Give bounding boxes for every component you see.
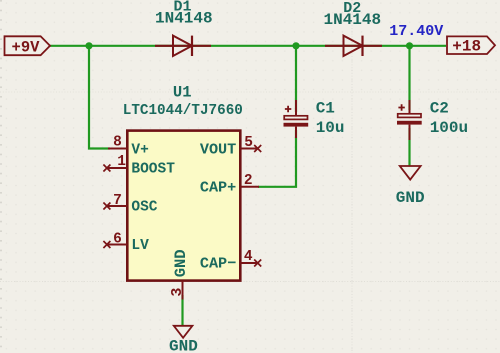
capacitor C2: [397, 100, 422, 140]
U1 pin 3 GND (bottom): [169, 249, 190, 299]
ground symbol under C2: [396, 166, 425, 207]
svg-text:BOOST: BOOST: [131, 162, 175, 178]
svg-text:OSC: OSC: [131, 200, 157, 216]
svg-text:2: 2: [244, 173, 253, 189]
svg-text:1: 1: [117, 154, 126, 170]
U1 pin 8 V+: [108, 135, 149, 159]
svg-text:GND: GND: [396, 189, 425, 207]
U1 pin 4 CAP- (no-connect): [200, 249, 261, 273]
svg-text:100u: 100u: [430, 119, 468, 137]
svg-text:3: 3: [169, 288, 186, 297]
svg-text:5: 5: [244, 135, 253, 151]
svg-text:4: 4: [244, 249, 253, 265]
wire C1 top drop: [295, 46, 297, 112]
svg-text:LTC1044/TJ7660: LTC1044/TJ7660: [123, 103, 243, 119]
svg-text:CAP−: CAP−: [200, 255, 236, 273]
U1 pin 7 OSC (no-connect): [103, 193, 157, 216]
svg-text:GND: GND: [172, 249, 190, 277]
svg-text:VOUT: VOUT: [200, 140, 236, 158]
U1 pin 5 VOUT (no-connect): [200, 135, 261, 158]
svg-text:+18: +18: [452, 38, 481, 56]
svg-text:17.40V: 17.40V: [389, 23, 443, 40]
svg-text:+9V: +9V: [12, 38, 41, 56]
wire junction 89 down to pin 8: [89, 46, 110, 149]
wire C2 bottom to GND: [408, 128, 410, 166]
op-amp / IC U1 body: [127, 131, 240, 281]
svg-text:LV: LV: [131, 238, 149, 254]
node junction at +9V branch: [85, 42, 92, 49]
svg-text:C2: C2: [430, 100, 449, 118]
svg-text:6: 6: [113, 232, 122, 248]
diode D1: [155, 36, 211, 56]
U1 pin 2 CAP+: [200, 173, 259, 197]
svg-text:U1: U1: [173, 84, 192, 102]
wire main horizontal +9V rail: [50, 45, 446, 47]
svg-text:V+: V+: [131, 142, 148, 158]
svg-text:1N4148: 1N4148: [155, 10, 213, 28]
wire C1 bottom to CAP+ pin 2: [258, 130, 296, 187]
ground symbol under U1 pin 3: [169, 326, 198, 353]
diode D2: [325, 36, 382, 56]
U1 pin 6 LV (no-connect): [103, 232, 149, 255]
wire pin 3 to GND: [181, 295, 183, 326]
svg-text:8: 8: [113, 135, 122, 151]
svg-text:CAP+: CAP+: [200, 179, 236, 197]
svg-text:1N4148: 1N4148: [323, 11, 381, 29]
svg-text:7: 7: [113, 193, 122, 209]
U1 pin 1 BOOST (no-connect): [103, 154, 175, 178]
wire C2 top drop: [408, 46, 410, 110]
capacitor C1: [284, 100, 309, 138]
svg-text:10u: 10u: [316, 119, 345, 137]
node junction at C1 top: [292, 42, 299, 49]
power flag +18: [447, 36, 495, 55]
node junction at C2 top: [406, 42, 413, 49]
svg-text:GND: GND: [169, 338, 198, 353]
power flag +9V: [5, 36, 51, 56]
svg-text:C1: C1: [316, 100, 335, 118]
